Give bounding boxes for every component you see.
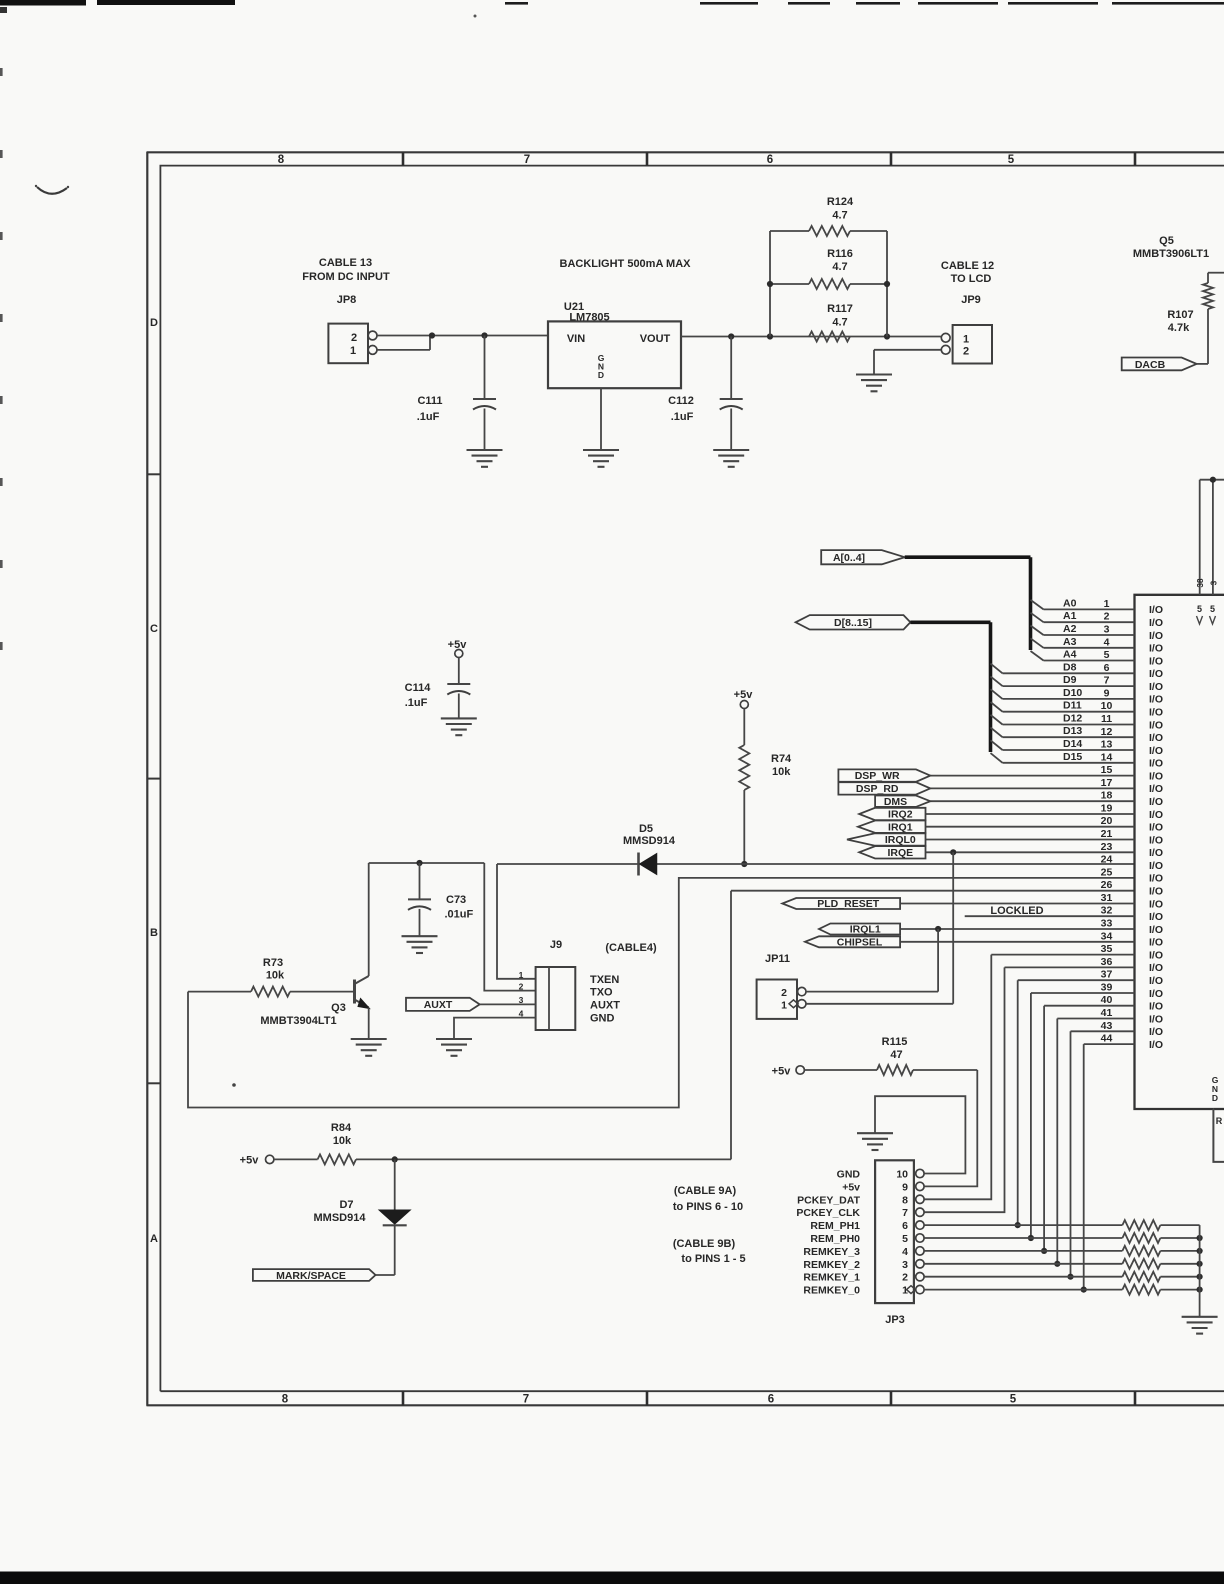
svg-text:REMKEY_3: REMKEY_3 (803, 1246, 860, 1258)
svg-text:PCKEY_CLK: PCKEY_CLK (796, 1207, 860, 1219)
svg-text:6: 6 (767, 154, 773, 166)
svg-text:1: 1 (963, 333, 969, 345)
svg-text:MMBT3906LT1: MMBT3906LT1 (1133, 248, 1209, 260)
svg-text:(CABLE 9B): (CABLE 9B) (673, 1238, 736, 1250)
svg-text:TXO: TXO (590, 986, 613, 998)
svg-text:I/O: I/O (1149, 630, 1163, 642)
svg-text:D: D (598, 370, 604, 380)
svg-text:D7: D7 (339, 1199, 353, 1211)
svg-text:PCKEY_DAT: PCKEY_DAT (797, 1194, 860, 1206)
svg-text:MMSD914: MMSD914 (623, 835, 676, 847)
svg-text:IRQL1: IRQL1 (850, 924, 881, 936)
svg-text:40: 40 (1101, 994, 1113, 1006)
svg-text:R115: R115 (882, 1036, 908, 1048)
svg-text:GND: GND (590, 1013, 615, 1025)
svg-text:(CABLE 9A): (CABLE 9A) (674, 1185, 737, 1197)
svg-text:43: 43 (1101, 1020, 1113, 1032)
svg-text:CABLE 13: CABLE 13 (319, 257, 372, 269)
svg-text:R74: R74 (771, 753, 792, 765)
svg-text:31: 31 (1101, 892, 1113, 904)
svg-text:I/O: I/O (1149, 924, 1163, 936)
svg-text:7: 7 (524, 154, 530, 166)
svg-text:.01uF: .01uF (445, 909, 474, 921)
svg-text:36: 36 (1101, 956, 1113, 968)
svg-text:I/O: I/O (1149, 847, 1163, 859)
svg-text:I/O: I/O (1149, 732, 1163, 744)
svg-text:IRQ1: IRQ1 (888, 821, 913, 833)
svg-text:+5v: +5v (772, 1066, 792, 1078)
svg-text:JP9: JP9 (961, 294, 981, 306)
svg-text:REMKEY_2: REMKEY_2 (803, 1259, 860, 1271)
svg-text:5: 5 (1197, 604, 1202, 614)
svg-text:I/O: I/O (1149, 655, 1163, 667)
svg-text:4.7k: 4.7k (1168, 322, 1190, 334)
svg-text:R: R (1216, 1116, 1223, 1126)
svg-text:24: 24 (1101, 854, 1113, 866)
svg-text:I/O: I/O (1149, 617, 1163, 629)
svg-text:4: 4 (902, 1246, 908, 1258)
svg-text:R107: R107 (1167, 309, 1193, 321)
svg-text:19: 19 (1101, 803, 1113, 815)
svg-text:33: 33 (1101, 918, 1113, 930)
svg-text:D: D (1212, 1093, 1218, 1103)
svg-text:6: 6 (1104, 662, 1110, 674)
svg-text:VOUT: VOUT (640, 333, 671, 345)
svg-text:44: 44 (1101, 1033, 1113, 1045)
svg-text:BACKLIGHT 500mA MAX: BACKLIGHT 500mA MAX (560, 258, 692, 270)
svg-text:CHIPSEL: CHIPSEL (837, 936, 883, 948)
svg-text:J9: J9 (550, 939, 562, 951)
svg-text:CABLE 12: CABLE 12 (941, 260, 994, 272)
svg-text:+5v: +5v (240, 1155, 260, 1167)
svg-text:.1uF: .1uF (405, 697, 428, 709)
svg-text:I/O: I/O (1149, 783, 1163, 795)
svg-text:(CABLE4): (CABLE4) (605, 942, 657, 954)
svg-text:REMKEY_1: REMKEY_1 (803, 1272, 860, 1284)
svg-text:D15: D15 (1063, 751, 1082, 763)
svg-text:21: 21 (1101, 828, 1113, 840)
svg-text:AUXT: AUXT (590, 999, 620, 1011)
svg-text:D14: D14 (1063, 738, 1082, 750)
svg-text:8: 8 (282, 1394, 289, 1406)
svg-text:LOCKLED: LOCKLED (990, 905, 1043, 917)
svg-text:1: 1 (1104, 598, 1110, 610)
svg-text:2: 2 (781, 987, 787, 999)
svg-text:C111: C111 (417, 395, 442, 407)
svg-text:C73: C73 (446, 894, 466, 906)
svg-text:I/O: I/O (1149, 873, 1163, 885)
svg-text:32: 32 (1101, 905, 1113, 917)
svg-text:I/O: I/O (1149, 681, 1163, 693)
svg-text:to PINS 6 - 10: to PINS 6 - 10 (673, 1201, 743, 1213)
svg-text:I/O: I/O (1149, 937, 1163, 949)
svg-text:I/O: I/O (1149, 809, 1163, 821)
svg-text:D11: D11 (1063, 700, 1082, 712)
svg-text:R84: R84 (331, 1122, 352, 1134)
svg-text:R73: R73 (263, 957, 283, 969)
svg-text:34: 34 (1101, 930, 1113, 942)
svg-text:11: 11 (1101, 713, 1112, 725)
svg-text:I/O: I/O (1149, 694, 1163, 706)
svg-text:to PINS 1 - 5: to PINS 1 - 5 (681, 1253, 745, 1265)
svg-text:A: A (150, 1233, 158, 1245)
svg-text:38: 38 (1196, 578, 1205, 587)
svg-text:D8: D8 (1063, 661, 1077, 673)
svg-text:IRQE: IRQE (887, 847, 913, 859)
svg-text:8: 8 (902, 1194, 908, 1206)
svg-text:5: 5 (902, 1233, 908, 1245)
svg-text:R117: R117 (827, 303, 853, 315)
svg-text:D: D (150, 317, 158, 329)
svg-text:REM_PH1: REM_PH1 (810, 1220, 860, 1232)
svg-text:C: C (150, 623, 158, 635)
svg-text:I/O: I/O (1149, 796, 1163, 808)
svg-text:I/O: I/O (1149, 745, 1163, 757)
svg-text:5: 5 (1008, 154, 1015, 166)
svg-text:3: 3 (902, 1259, 908, 1271)
svg-text:A1: A1 (1063, 610, 1077, 622)
svg-text:10k: 10k (333, 1135, 352, 1147)
svg-text:I/O: I/O (1149, 604, 1163, 616)
svg-text:6: 6 (902, 1220, 908, 1232)
svg-text:I/O: I/O (1149, 834, 1163, 846)
svg-text:10: 10 (1101, 700, 1113, 712)
svg-text:3: 3 (519, 995, 524, 1005)
svg-text:20: 20 (1101, 815, 1113, 827)
svg-text:PLD_RESET: PLD_RESET (817, 898, 879, 910)
svg-text:4.7: 4.7 (832, 261, 847, 273)
svg-text:DSP_WR: DSP_WR (855, 770, 900, 782)
svg-text:D5: D5 (639, 823, 653, 835)
svg-text:DMS: DMS (884, 796, 907, 808)
svg-text:23: 23 (1101, 841, 1113, 853)
svg-text:35: 35 (1101, 943, 1113, 955)
svg-text:10k: 10k (266, 970, 285, 982)
svg-text:VIN: VIN (567, 333, 585, 345)
svg-text:9: 9 (902, 1181, 908, 1193)
svg-text:I/O: I/O (1149, 822, 1163, 834)
svg-text:Q5: Q5 (1159, 235, 1174, 247)
svg-text:JP11: JP11 (765, 953, 790, 965)
svg-text:I/O: I/O (1149, 898, 1163, 910)
svg-text:A3: A3 (1063, 636, 1077, 648)
svg-text:I/O: I/O (1149, 886, 1163, 898)
svg-text:R124: R124 (827, 196, 854, 208)
svg-text:5: 5 (1104, 649, 1110, 661)
svg-text:TO LCD: TO LCD (951, 273, 992, 285)
svg-text:18: 18 (1101, 790, 1113, 802)
svg-text:I/O: I/O (1149, 719, 1163, 731)
svg-text:IRQ2: IRQ2 (888, 809, 913, 821)
svg-text:REMKEY_0: REMKEY_0 (803, 1285, 860, 1297)
svg-text:25: 25 (1101, 866, 1113, 878)
svg-text:I/O: I/O (1149, 962, 1163, 974)
svg-text:2: 2 (963, 346, 969, 358)
svg-text:C114: C114 (405, 682, 432, 694)
svg-text:6: 6 (768, 1394, 774, 1406)
svg-text:I/O: I/O (1149, 758, 1163, 770)
svg-text:GND: GND (837, 1169, 861, 1181)
svg-text:17: 17 (1101, 777, 1113, 789)
svg-text:5: 5 (1010, 1394, 1017, 1406)
svg-text:DSP_RD: DSP_RD (856, 783, 899, 795)
svg-text:D12: D12 (1063, 713, 1082, 725)
svg-text:MMSD914: MMSD914 (314, 1212, 367, 1224)
svg-text:I/O: I/O (1149, 707, 1163, 719)
svg-text:I/O: I/O (1149, 668, 1163, 680)
svg-text:2: 2 (351, 332, 357, 344)
svg-text:MMBT3904LT1: MMBT3904LT1 (260, 1015, 336, 1027)
svg-text:B: B (150, 927, 158, 939)
svg-text:1: 1 (781, 999, 787, 1011)
svg-text:4.7: 4.7 (832, 317, 847, 329)
svg-text:I/O: I/O (1149, 988, 1163, 1000)
svg-text:.1uF: .1uF (417, 411, 440, 423)
svg-text:7: 7 (902, 1207, 908, 1219)
svg-text:26: 26 (1101, 879, 1113, 891)
svg-text:37: 37 (1101, 969, 1113, 981)
svg-text:I/O: I/O (1149, 1013, 1163, 1025)
svg-text:13: 13 (1101, 739, 1113, 751)
svg-text:I/O: I/O (1149, 1001, 1163, 1013)
svg-text:5: 5 (1210, 604, 1215, 614)
svg-text:4.7: 4.7 (832, 210, 847, 222)
svg-text:1: 1 (350, 345, 356, 357)
svg-text:AUXT: AUXT (424, 999, 453, 1011)
svg-text:I/O: I/O (1149, 643, 1163, 655)
svg-text:+5v: +5v (734, 689, 754, 701)
svg-text:4: 4 (1104, 636, 1110, 648)
svg-text:I/O: I/O (1149, 975, 1163, 987)
svg-text:.1uF: .1uF (671, 411, 694, 423)
svg-text:D10: D10 (1063, 687, 1082, 699)
svg-text:47: 47 (890, 1049, 902, 1061)
svg-text:REM_PH0: REM_PH0 (810, 1233, 860, 1245)
svg-text:12: 12 (1101, 726, 1113, 738)
svg-text:7: 7 (523, 1394, 529, 1406)
svg-text:D13: D13 (1063, 725, 1082, 737)
svg-text:I/O: I/O (1149, 949, 1163, 961)
svg-text:MARK/SPACE: MARK/SPACE (276, 1270, 346, 1282)
svg-text:C112: C112 (668, 395, 694, 407)
svg-text:I/O: I/O (1149, 860, 1163, 872)
svg-text:I/O: I/O (1149, 770, 1163, 782)
svg-text:IRQL0: IRQL0 (885, 834, 916, 846)
svg-text:41: 41 (1101, 1007, 1113, 1019)
svg-text:I/O: I/O (1149, 1039, 1163, 1051)
svg-text:39: 39 (1101, 982, 1113, 994)
svg-text:D9: D9 (1063, 674, 1077, 686)
svg-text:15: 15 (1101, 764, 1113, 776)
svg-text:1: 1 (519, 970, 524, 980)
svg-text:2: 2 (519, 982, 524, 992)
svg-text:3: 3 (1210, 580, 1219, 585)
svg-text:JP8: JP8 (337, 294, 357, 306)
svg-text:A2: A2 (1063, 623, 1077, 635)
svg-text:A[0..4]: A[0..4] (833, 552, 865, 564)
svg-text:Q3: Q3 (331, 1002, 346, 1014)
svg-text:LM7805: LM7805 (569, 311, 609, 323)
svg-text:I/O: I/O (1149, 1026, 1163, 1038)
svg-text:R116: R116 (827, 248, 853, 260)
svg-text:I/O: I/O (1149, 911, 1163, 923)
svg-text:FROM DC INPUT: FROM DC INPUT (302, 271, 390, 283)
svg-text:10k: 10k (772, 766, 791, 778)
svg-text:DACB: DACB (1135, 359, 1166, 371)
svg-text:+5v: +5v (842, 1181, 860, 1193)
svg-text:10: 10 (896, 1169, 908, 1181)
svg-text:JP3: JP3 (885, 1314, 905, 1326)
svg-text:2: 2 (902, 1272, 908, 1284)
svg-text:3: 3 (1104, 624, 1110, 636)
svg-text:8: 8 (278, 154, 285, 166)
svg-text:A4: A4 (1063, 649, 1077, 661)
svg-text:D[8..15]: D[8..15] (834, 617, 872, 629)
svg-text:9: 9 (1104, 687, 1110, 699)
svg-text:14: 14 (1101, 751, 1113, 763)
svg-text:A0: A0 (1063, 597, 1077, 609)
svg-text:2: 2 (1104, 611, 1110, 623)
svg-text:7: 7 (1104, 675, 1110, 687)
svg-text:TXEN: TXEN (590, 974, 619, 986)
